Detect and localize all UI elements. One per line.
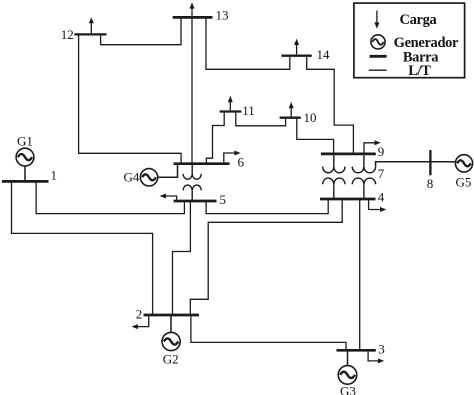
load arrow bus 5 bbox=[160, 194, 177, 200]
svg-text:1: 1 bbox=[51, 168, 58, 183]
load arrow bus 6 bbox=[224, 151, 241, 163]
wire line 12-6 bbox=[79, 36, 182, 163]
bus bar 11 bbox=[220, 110, 242, 112]
svg-text:2: 2 bbox=[136, 307, 143, 322]
legend generator symbol bbox=[371, 35, 385, 49]
bus bar 3 bbox=[337, 349, 376, 352]
svg-text:G5: G5 bbox=[456, 174, 472, 189]
wire line 11-6 bbox=[206, 113, 224, 163]
svg-text:3: 3 bbox=[378, 341, 385, 356]
svg-text:10: 10 bbox=[304, 110, 317, 125]
load arrow bus 11 bbox=[228, 96, 233, 111]
bus bar 4 bbox=[320, 198, 376, 201]
transformer 9-4 bbox=[323, 155, 345, 198]
wire line 2-4 bbox=[190, 200, 342, 314]
bus bar 13 bbox=[173, 16, 213, 19]
svg-text:G1: G1 bbox=[17, 134, 33, 149]
bus bar 14 bbox=[281, 55, 311, 57]
wire line 1-2 bbox=[12, 183, 153, 314]
svg-text:14: 14 bbox=[317, 47, 331, 62]
svg-text:G3: G3 bbox=[340, 384, 356, 395]
svg-text:6: 6 bbox=[238, 154, 245, 169]
wire line 4-5 bbox=[206, 200, 328, 213]
bus bar 10 bbox=[280, 117, 301, 119]
wire line 13-14 bbox=[206, 19, 290, 70]
wire line 14-9 bbox=[307, 57, 354, 153]
load arrow bus 14 bbox=[294, 39, 299, 55]
svg-text:5: 5 bbox=[220, 192, 227, 207]
legend barra symbol bbox=[370, 55, 387, 58]
wire node7 to bus 8 to G5 bbox=[376, 162, 456, 167]
svg-text:13: 13 bbox=[216, 8, 229, 23]
load arrow bus 10 bbox=[289, 102, 294, 117]
wire G1 to bus 1 bbox=[24, 166, 26, 180]
bus bar 8 (vertical) bbox=[429, 150, 431, 175]
wire line 11-10 bbox=[236, 113, 286, 126]
wire line 12-13 bbox=[101, 19, 181, 45]
wire line 10-9 bbox=[297, 119, 334, 153]
wire G3 stub bbox=[347, 352, 349, 366]
wire line 2-3 bbox=[191, 316, 346, 349]
wire line 3-4 bbox=[359, 200, 361, 349]
bus bar 6 bbox=[174, 162, 230, 165]
svg-text:L/T: L/T bbox=[408, 63, 431, 79]
wire line 2-5 bbox=[173, 202, 191, 314]
transformer 7-4 bbox=[352, 155, 375, 198]
svg-text:Carga: Carga bbox=[400, 12, 438, 28]
bus bar 1 bbox=[2, 180, 49, 183]
svg-text:G2: G2 bbox=[163, 351, 179, 366]
generator G5 bbox=[455, 155, 472, 172]
legend L/T symbol bbox=[369, 69, 387, 71]
svg-text:11: 11 bbox=[242, 103, 255, 118]
svg-text:4: 4 bbox=[378, 190, 385, 205]
load arrow bus 4 bbox=[369, 200, 387, 212]
bus bar 9 bbox=[321, 153, 376, 156]
legend load arrow bbox=[374, 11, 379, 29]
load arrow bus 13 bbox=[190, 2, 195, 16]
load arrow bus 3 bbox=[368, 352, 384, 364]
svg-text:12: 12 bbox=[61, 27, 74, 42]
wire line 1-5 bbox=[36, 183, 184, 214]
svg-text:7: 7 bbox=[378, 166, 385, 181]
generator G3 bbox=[338, 366, 357, 385]
load arrow bus 9 bbox=[364, 140, 381, 152]
generator G2 bbox=[162, 332, 180, 350]
wire G4 to bus 6 bbox=[158, 165, 178, 177]
svg-text:8: 8 bbox=[427, 176, 434, 191]
generator G4 bbox=[140, 169, 157, 186]
transformer 6-5 bbox=[183, 165, 201, 200]
bus bar 5 bbox=[174, 200, 217, 203]
load arrow bus 2 bbox=[132, 316, 149, 329]
legend box bbox=[354, 3, 465, 78]
svg-text:G4: G4 bbox=[124, 170, 140, 185]
wire G2 stub bbox=[170, 316, 172, 332]
wire line 13-6 bbox=[191, 19, 193, 163]
bus bar 12 bbox=[74, 33, 106, 35]
load arrow bus 12 bbox=[89, 17, 94, 33]
generator G1 bbox=[16, 148, 34, 166]
svg-text:9: 9 bbox=[378, 144, 385, 159]
bus bar 2 bbox=[144, 314, 200, 317]
